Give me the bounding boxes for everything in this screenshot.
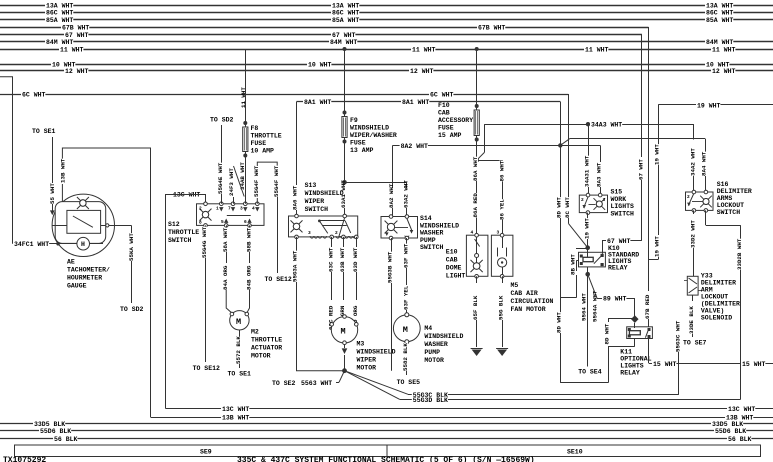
- wire 8A4 WHT to S16: [705, 139, 707, 153]
- svg-text:THROTTLE: THROTTLE: [251, 133, 282, 140]
- svg-text:LOCKOUT: LOCKOUT: [701, 294, 728, 301]
- node ground junction: [342, 368, 347, 373]
- svg-text:33D2B WHT: 33D2B WHT: [736, 238, 743, 270]
- svg-text:S13: S13: [305, 182, 317, 189]
- svg-text:11 WHT: 11 WHT: [712, 47, 736, 54]
- svg-text:86C WHT: 86C WHT: [332, 10, 359, 17]
- svg-text:8D WHT: 8D WHT: [603, 323, 610, 344]
- svg-text:CAB: CAB: [438, 110, 450, 117]
- switch S12 throttle switch body: [197, 204, 265, 226]
- svg-text:8A2 WHT: 8A2 WHT: [401, 143, 428, 150]
- svg-text:WORK: WORK: [611, 196, 627, 203]
- svg-text:13C WHT: 13C WHT: [728, 406, 755, 413]
- svg-text:WINDSHIELD: WINDSHIELD: [420, 222, 459, 229]
- svg-text:13B WHT: 13B WHT: [222, 415, 249, 422]
- svg-text:5564 WHT: 5564 WHT: [580, 293, 587, 321]
- svg-text:M: M: [403, 325, 408, 335]
- wire 33D2B WHT return: [705, 210, 707, 225]
- wire K11 coil return: [634, 339, 636, 347]
- wire 34FC1 feed from left edge: [0, 77, 13, 244]
- S15 lever: [584, 197, 589, 209]
- svg-text:19 WHT: 19 WHT: [583, 218, 590, 239]
- wire 13C WHT bottom line: [165, 408, 773, 410]
- svg-text:DELIMITER: DELIMITER: [717, 188, 752, 195]
- gauge meter element: [67, 210, 101, 233]
- svg-text:84A ORG: 84A ORG: [222, 265, 229, 290]
- svg-text:55G3B WHT: 55G3B WHT: [386, 251, 393, 283]
- motor M3 windshield wiper: [331, 317, 357, 343]
- svg-text:WINDSHIELD: WINDSHIELD: [305, 190, 344, 197]
- svg-text:RELAY: RELAY: [608, 265, 628, 272]
- wire 8A2 WHT horizontal: [393, 145, 561, 147]
- svg-text:PUMP: PUMP: [424, 349, 440, 356]
- svg-text:TO SE12: TO SE12: [265, 276, 292, 283]
- svg-text:11 WHT: 11 WHT: [240, 87, 247, 108]
- svg-text:6C WHT: 6C WHT: [22, 92, 46, 99]
- S14 lamp: [385, 221, 398, 234]
- svg-text:55KA WHT: 55KA WHT: [128, 233, 135, 261]
- svg-text:SWITCH: SWITCH: [420, 244, 444, 251]
- svg-text:10 WHT: 10 WHT: [308, 62, 332, 69]
- svg-text:19 WHT: 19 WHT: [654, 144, 661, 165]
- wire 8C WHT: [568, 94, 570, 199]
- svg-text:84M WHT: 84M WHT: [706, 39, 733, 46]
- S15 lamp: [594, 198, 606, 210]
- svg-text:SWITCH: SWITCH: [168, 237, 192, 244]
- wire 55G3D BLK: [345, 371, 400, 400]
- svg-text:8A2 WHT: 8A2 WHT: [388, 183, 395, 208]
- svg-text:SWITCH: SWITCH: [305, 206, 329, 213]
- wire 58B WHT / 84B ORG: [249, 225, 251, 230]
- svg-text:34A2 WHT: 34A2 WHT: [689, 148, 696, 176]
- svg-text:85A WHT: 85A WHT: [332, 17, 359, 24]
- svg-text:58A WHT: 58A WHT: [222, 227, 229, 252]
- svg-text:6C WHT: 6C WHT: [430, 92, 454, 99]
- svg-text:MOTOR: MOTOR: [424, 357, 444, 364]
- svg-text:8D WHT: 8D WHT: [556, 312, 563, 333]
- svg-text:3: 3: [240, 206, 243, 212]
- svg-text:2: 2: [335, 230, 338, 236]
- wire bus 67 WHT: [0, 34, 642, 36]
- svg-text:67B WHT: 67B WHT: [62, 25, 89, 32]
- svg-text:5582 BLK: 5582 BLK: [402, 343, 409, 371]
- svg-text:SWITCH: SWITCH: [717, 209, 741, 216]
- svg-text:FUSE: FUSE: [350, 140, 366, 147]
- svg-text:TO SE1: TO SE1: [228, 371, 252, 378]
- svg-text:TO SD2: TO SD2: [210, 117, 234, 124]
- svg-text:TACHOMETER/: TACHOMETER/: [67, 267, 110, 274]
- wire 55G3C BLK: [345, 371, 409, 395]
- svg-text:2: 2: [581, 197, 584, 203]
- svg-text:FUSE: FUSE: [438, 125, 454, 132]
- wire bus 10 WHT: [0, 64, 773, 66]
- connector SE10: [387, 445, 761, 457]
- svg-text:19 WHT: 19 WHT: [697, 102, 721, 109]
- wire 63D WHT / 63D ORG: [356, 237, 358, 247]
- relay K10 standard lights relay body: [579, 252, 606, 267]
- svg-text:86 WHT: 86 WHT: [498, 160, 505, 181]
- svg-text:335C & 437C SYSTEM FUNCTIONAL: 335C & 437C SYSTEM FUNCTIONAL SCHEMATIC …: [237, 456, 535, 462]
- svg-text:F10: F10: [438, 102, 450, 109]
- wire 55G3C WHT: [675, 321, 680, 353]
- svg-text:S12: S12: [168, 221, 180, 228]
- svg-text:M4: M4: [424, 325, 432, 332]
- wire 8B WHT: [577, 260, 579, 262]
- S14 lever: [407, 219, 412, 232]
- svg-text:5563 WHT: 5563 WHT: [301, 380, 332, 387]
- svg-text:M5: M5: [511, 282, 519, 289]
- svg-text:4: 4: [252, 206, 255, 212]
- svg-text:84M WHT: 84M WHT: [330, 39, 357, 46]
- wire 55G4F WHT to SE12: [256, 197, 258, 204]
- svg-text:OPTIONAL: OPTIONAL: [620, 356, 651, 363]
- svg-text:8A4 WHT: 8A4 WHT: [701, 151, 708, 176]
- svg-text:84M WHT: 84M WHT: [46, 39, 73, 46]
- svg-text:LIGHT: LIGHT: [446, 273, 466, 280]
- svg-text:8: 8: [199, 220, 202, 226]
- node K10 output junction: [587, 267, 589, 274]
- S14 terminals: [389, 215, 393, 219]
- wire 34A31 WHT: [588, 124, 590, 158]
- svg-text:TO SD2: TO SD2: [120, 306, 144, 313]
- svg-text:11 WHT: 11 WHT: [412, 47, 436, 54]
- svg-text:3: 3: [497, 230, 500, 236]
- svg-text:M3: M3: [357, 341, 365, 348]
- wire to S14 terminals: [345, 182, 407, 184]
- wire 67B RED to K11: [648, 27, 650, 291]
- svg-text:PUMP: PUMP: [420, 237, 436, 244]
- wire 65F BLK to ground: [476, 276, 478, 283]
- wire 5564 WHT / 5564A WHT to SE4: [587, 274, 589, 304]
- svg-text:LIGHTS: LIGHTS: [620, 363, 644, 370]
- wire 19 WHT jog: [649, 259, 659, 261]
- node F9 output junction: [342, 180, 347, 185]
- svg-text:CAB AIR: CAB AIR: [511, 290, 538, 297]
- svg-text:86C WHT: 86C WHT: [706, 10, 733, 17]
- svg-text:19 WHT: 19 WHT: [654, 236, 661, 257]
- wire 63F WHT / 63F YEL: [406, 238, 408, 247]
- svg-text:63F WHT: 63F WHT: [402, 243, 409, 268]
- svg-text:13A WHT: 13A WHT: [706, 3, 733, 10]
- svg-text:FUSE: FUSE: [251, 140, 267, 147]
- svg-text:S14: S14: [420, 215, 432, 222]
- svg-text:WIPER: WIPER: [357, 357, 377, 364]
- wire 34AB WHT fuse to S12: [245, 156, 247, 204]
- svg-text:56 BLK: 56 BLK: [728, 436, 752, 443]
- switch S14 washer pump switch body: [381, 217, 418, 239]
- svg-text:55G3D BLK: 55G3D BLK: [413, 397, 448, 404]
- wire bus 56 BLK: [0, 438, 773, 440]
- svg-text:33D2 WHT: 33D2 WHT: [689, 220, 696, 248]
- wire 8A4 WHT feed line: [570, 138, 706, 140]
- svg-text:K11: K11: [620, 349, 632, 356]
- svg-text:1: 1: [216, 206, 219, 212]
- label 34FC1 WHT: [13, 241, 49, 247]
- svg-text:(DELIMITER: (DELIMITER: [701, 301, 740, 308]
- svg-text:65F BLK: 65F BLK: [472, 295, 479, 320]
- svg-text:86 YEL: 86 YEL: [498, 199, 505, 220]
- svg-text:TO SE4: TO SE4: [578, 369, 602, 376]
- svg-text:5564A WHT: 5564A WHT: [591, 290, 598, 322]
- node K10 feed junction: [585, 245, 590, 250]
- svg-text:8D WHT: 8D WHT: [556, 197, 563, 218]
- wire 8D WHT lower run: [560, 382, 608, 384]
- svg-text:12 WHT: 12 WHT: [410, 68, 434, 75]
- svg-text:4: 4: [471, 230, 474, 236]
- svg-text:12 WHT: 12 WHT: [65, 68, 89, 75]
- svg-text:34FC1 WHT: 34FC1 WHT: [14, 241, 49, 248]
- wire E10 feed 86A WHT / 86A RED: [476, 160, 478, 167]
- svg-text:11 WHT: 11 WHT: [60, 47, 84, 54]
- svg-text:10 AMP: 10 AMP: [251, 148, 275, 155]
- svg-text:8A1 WHT: 8A1 WHT: [402, 99, 429, 106]
- motor M2 throttle actuator: [230, 311, 249, 330]
- svg-text:3: 3: [308, 230, 311, 236]
- S16 terminals: [692, 190, 696, 194]
- svg-text:86A WHT: 86A WHT: [472, 156, 479, 181]
- wire 67 WHT to K10: [641, 35, 643, 158]
- svg-text:8B WHT: 8B WHT: [569, 254, 576, 275]
- svg-text:HOURMETER: HOURMETER: [67, 275, 102, 282]
- svg-text:ACTUATOR: ACTUATOR: [251, 345, 282, 352]
- svg-text:67B RED: 67B RED: [644, 294, 651, 319]
- svg-text:TX1075292: TX1075292: [3, 456, 46, 462]
- svg-text:11 WHT: 11 WHT: [585, 47, 609, 54]
- wire 24F3 WHT: [234, 166, 245, 197]
- svg-text:33DE BLK: 33DE BLK: [688, 306, 695, 334]
- svg-text:55G4F WHT: 55G4F WHT: [253, 165, 260, 197]
- svg-text:84B ORG: 84B ORG: [246, 265, 253, 290]
- svg-text:SE9: SE9: [200, 449, 212, 456]
- svg-text:13A WHT: 13A WHT: [46, 3, 73, 10]
- svg-text:WINDSHIELD: WINDSHIELD: [350, 125, 389, 132]
- wire 8A2 to 8A4 diagonal: [560, 139, 569, 146]
- S13 lamp: [291, 220, 303, 232]
- gauge hourmeter H: [77, 237, 90, 250]
- svg-text:8C WHT: 8C WHT: [564, 197, 571, 218]
- relay K11 optional lights relay body: [627, 327, 653, 339]
- svg-text:55D6 BLK: 55D6 BLK: [715, 428, 746, 435]
- svg-text:63A1 WHT: 63A1 WHT: [340, 180, 347, 208]
- svg-text:H: H: [81, 241, 85, 248]
- svg-text:GAUGE: GAUGE: [67, 283, 87, 290]
- wire 89 WHT to K11: [588, 274, 597, 298]
- svg-text:S16: S16: [717, 181, 729, 188]
- svg-text:63B WHT: 63B WHT: [339, 247, 346, 272]
- svg-text:WINDSHIELD: WINDSHIELD: [357, 349, 396, 356]
- svg-text:67 WHT: 67 WHT: [637, 159, 644, 180]
- svg-text:WIPER: WIPER: [305, 198, 325, 205]
- svg-text:86A RED: 86A RED: [472, 193, 479, 218]
- gauge AE outer circle: [52, 194, 114, 256]
- svg-text:TO SE12: TO SE12: [193, 365, 220, 372]
- svg-text:SE10: SE10: [567, 449, 583, 456]
- svg-text:67B WHT: 67B WHT: [478, 25, 505, 32]
- wire 55G4G WHT to SE12: [205, 225, 207, 230]
- wire 55G BLK to ground: [502, 276, 504, 283]
- svg-text:2: 2: [687, 194, 690, 200]
- wire 5582 BLK to SE5: [406, 344, 408, 348]
- S13 bottom terminals: [330, 235, 334, 239]
- svg-text:SWITCH: SWITCH: [611, 210, 635, 217]
- wire bus 55D6 BLK: [0, 430, 773, 432]
- svg-text:15 AMP: 15 AMP: [438, 132, 462, 139]
- S12 contacts: [219, 207, 223, 211]
- svg-text:55G BLK: 55G BLK: [497, 295, 504, 320]
- svg-text:DOME: DOME: [446, 265, 462, 272]
- svg-text:WASHER: WASHER: [424, 341, 448, 348]
- svg-text:55 WHT: 55 WHT: [49, 183, 56, 204]
- S16 lamp: [700, 196, 712, 208]
- wire bus 84M WHT: [0, 41, 773, 43]
- svg-text:12 WHT: 12 WHT: [712, 68, 736, 75]
- svg-text:8A1 WHT: 8A1 WHT: [304, 99, 331, 106]
- wire 5563 WHT to SE2: [339, 371, 345, 383]
- svg-text:LOCKOUT: LOCKOUT: [717, 202, 744, 209]
- motor M4 washer pump: [393, 315, 420, 342]
- connector SE9: [15, 445, 388, 457]
- svg-text:63A2 WHT: 63A2 WHT: [402, 180, 409, 208]
- wire 13B WHT gauge loop: [62, 148, 150, 417]
- solenoid Y10 body: [687, 276, 698, 295]
- wire bus 33D5 BLK: [0, 423, 773, 425]
- svg-text:SOLENOID: SOLENOID: [701, 315, 732, 322]
- svg-text:24F3 WHT: 24F3 WHT: [228, 168, 235, 196]
- wire 34A3 WHT feed: [477, 153, 485, 161]
- node F10 output junction: [474, 158, 479, 163]
- svg-text:VALVE): VALVE): [701, 308, 724, 315]
- svg-text:63D WHT: 63D WHT: [352, 247, 359, 272]
- svg-text:CIRCULATION: CIRCULATION: [511, 298, 554, 305]
- svg-text:MOTOR: MOTOR: [251, 353, 271, 360]
- svg-text:3: 3: [603, 197, 606, 203]
- svg-text:63C WHT: 63C WHT: [327, 247, 334, 272]
- lamp E10 cab dome light body: [466, 235, 488, 276]
- svg-text:15 WHT: 15 WHT: [742, 361, 766, 368]
- svg-text:E10: E10: [446, 249, 458, 256]
- svg-text:DELIMITER: DELIMITER: [701, 280, 736, 287]
- motor M5 cab air circulation fan body: [491, 235, 513, 276]
- gauge mid wires: [52, 225, 67, 227]
- svg-text:ARM: ARM: [701, 287, 713, 294]
- svg-text:CAB: CAB: [446, 257, 458, 264]
- S13 wiper mechanism: [318, 220, 321, 223]
- svg-text:TO SE1: TO SE1: [32, 128, 56, 135]
- wire bus 12 WHT: [0, 70, 773, 72]
- svg-text:MOTOR: MOTOR: [357, 365, 377, 372]
- svg-text:67 WHT: 67 WHT: [332, 32, 356, 39]
- S12 terminals: [204, 202, 208, 206]
- svg-text:S15: S15: [611, 189, 623, 196]
- svg-text:FAN MOTOR: FAN MOTOR: [511, 306, 546, 313]
- svg-text:M: M: [236, 317, 241, 327]
- fuse F8 throttle fuse: [245, 49, 247, 123]
- svg-text:13C WHT: 13C WHT: [222, 406, 249, 413]
- svg-text:WIPER/WASHER: WIPER/WASHER: [350, 132, 397, 139]
- wire M3 ground return: [344, 345, 346, 349]
- svg-text:AE: AE: [67, 259, 75, 266]
- svg-text:67 WHT: 67 WHT: [65, 32, 89, 39]
- svg-text:5: 5: [221, 219, 224, 225]
- wire 19 WHT top line: [658, 104, 773, 106]
- gauge lamp: [77, 197, 89, 209]
- wire bus 13A WHT: [0, 5, 773, 7]
- svg-text:TO SE7: TO SE7: [683, 340, 707, 347]
- svg-text:TO SE2: TO SE2: [272, 380, 296, 387]
- wire 8A3 WHT: [560, 145, 600, 147]
- svg-text:F9: F9: [350, 117, 358, 124]
- ground below M5: [496, 348, 508, 350]
- svg-text:67 WHT: 67 WHT: [607, 238, 631, 245]
- svg-text:THROTTLE: THROTTLE: [251, 337, 282, 344]
- svg-text:15 WHT: 15 WHT: [653, 361, 677, 368]
- svg-text:WASHER: WASHER: [420, 230, 444, 237]
- wire 55KA WHT to SD2: [131, 225, 133, 238]
- svg-text:13 AMP: 13 AMP: [350, 147, 374, 154]
- svg-text:TO SE5: TO SE5: [397, 379, 421, 386]
- svg-text:ACCESSORY: ACCESSORY: [438, 117, 473, 124]
- wire 63C WHT / 63C RED: [331, 237, 333, 247]
- wire 34A2 WHT to S16: [693, 124, 695, 139]
- wire 55G3B WHT: [391, 238, 393, 253]
- svg-text:6: 6: [244, 219, 247, 225]
- svg-text:F8: F8: [251, 125, 259, 132]
- switch S13 wiper switch body: [289, 216, 358, 237]
- wire 58A WHT / 84A ORG: [226, 225, 228, 230]
- svg-text:33D5 BLK: 33D5 BLK: [34, 421, 65, 428]
- wire 15 WHT: [648, 339, 650, 364]
- svg-text:55G3C WHT: 55G3C WHT: [674, 320, 681, 352]
- wire M5 feed 86 WHT / 86 YEL: [477, 160, 503, 162]
- svg-text:LIGHTS: LIGHTS: [611, 203, 635, 210]
- svg-text:13B WHT: 13B WHT: [59, 158, 66, 183]
- svg-text:34A3 WHT: 34A3 WHT: [591, 122, 622, 129]
- wire 5572 BLK to SE1: [239, 330, 241, 339]
- svg-text:THROTTLE: THROTTLE: [168, 229, 199, 236]
- wire 13C WHT vertical: [172, 191, 200, 197]
- svg-text:58B WHT: 58B WHT: [246, 227, 253, 252]
- svg-text:55G4F WHT: 55G4F WHT: [273, 165, 280, 197]
- fuse F10 cab accessory fuse: [476, 49, 478, 106]
- wire 8D WHT vertical: [560, 102, 562, 198]
- wire 55G3A WHT: [296, 237, 298, 253]
- ground below E10: [471, 348, 483, 350]
- svg-text:2: 2: [199, 206, 202, 212]
- svg-text:RELAY: RELAY: [620, 370, 640, 377]
- svg-text:55D6 BLK: 55D6 BLK: [40, 428, 71, 435]
- svg-text:ARMS: ARMS: [717, 195, 733, 202]
- wire bus 85A WHT: [0, 19, 773, 21]
- svg-text:89 WHT: 89 WHT: [603, 296, 627, 303]
- wire 33DE BLK to SE7: [692, 295, 694, 301]
- svg-text:85A WHT: 85A WHT: [46, 17, 73, 24]
- fuse F9 wiper/washer fuse: [344, 49, 346, 113]
- node K11 feed junction diamond: [631, 315, 639, 323]
- svg-text:55G4E WHT: 55G4E WHT: [217, 162, 224, 194]
- wire bus 11 WHT: [0, 49, 773, 51]
- svg-text:M2: M2: [251, 329, 259, 336]
- S15 terminals: [586, 193, 590, 197]
- wire 33D2 WHT to Y10: [693, 210, 695, 214]
- wire 63B WHT / 63B GRN: [343, 237, 345, 247]
- svg-text:56 BLK: 56 BLK: [54, 436, 78, 443]
- svg-text:33D5 BLK: 33D5 BLK: [712, 421, 743, 428]
- svg-text:13A WHT: 13A WHT: [332, 3, 359, 10]
- svg-text:34A31 WHT: 34A31 WHT: [583, 155, 590, 187]
- svg-text:85A WHT: 85A WHT: [706, 17, 733, 24]
- S16 lever: [688, 194, 694, 206]
- svg-text:8A3 WHT: 8A3 WHT: [596, 162, 603, 187]
